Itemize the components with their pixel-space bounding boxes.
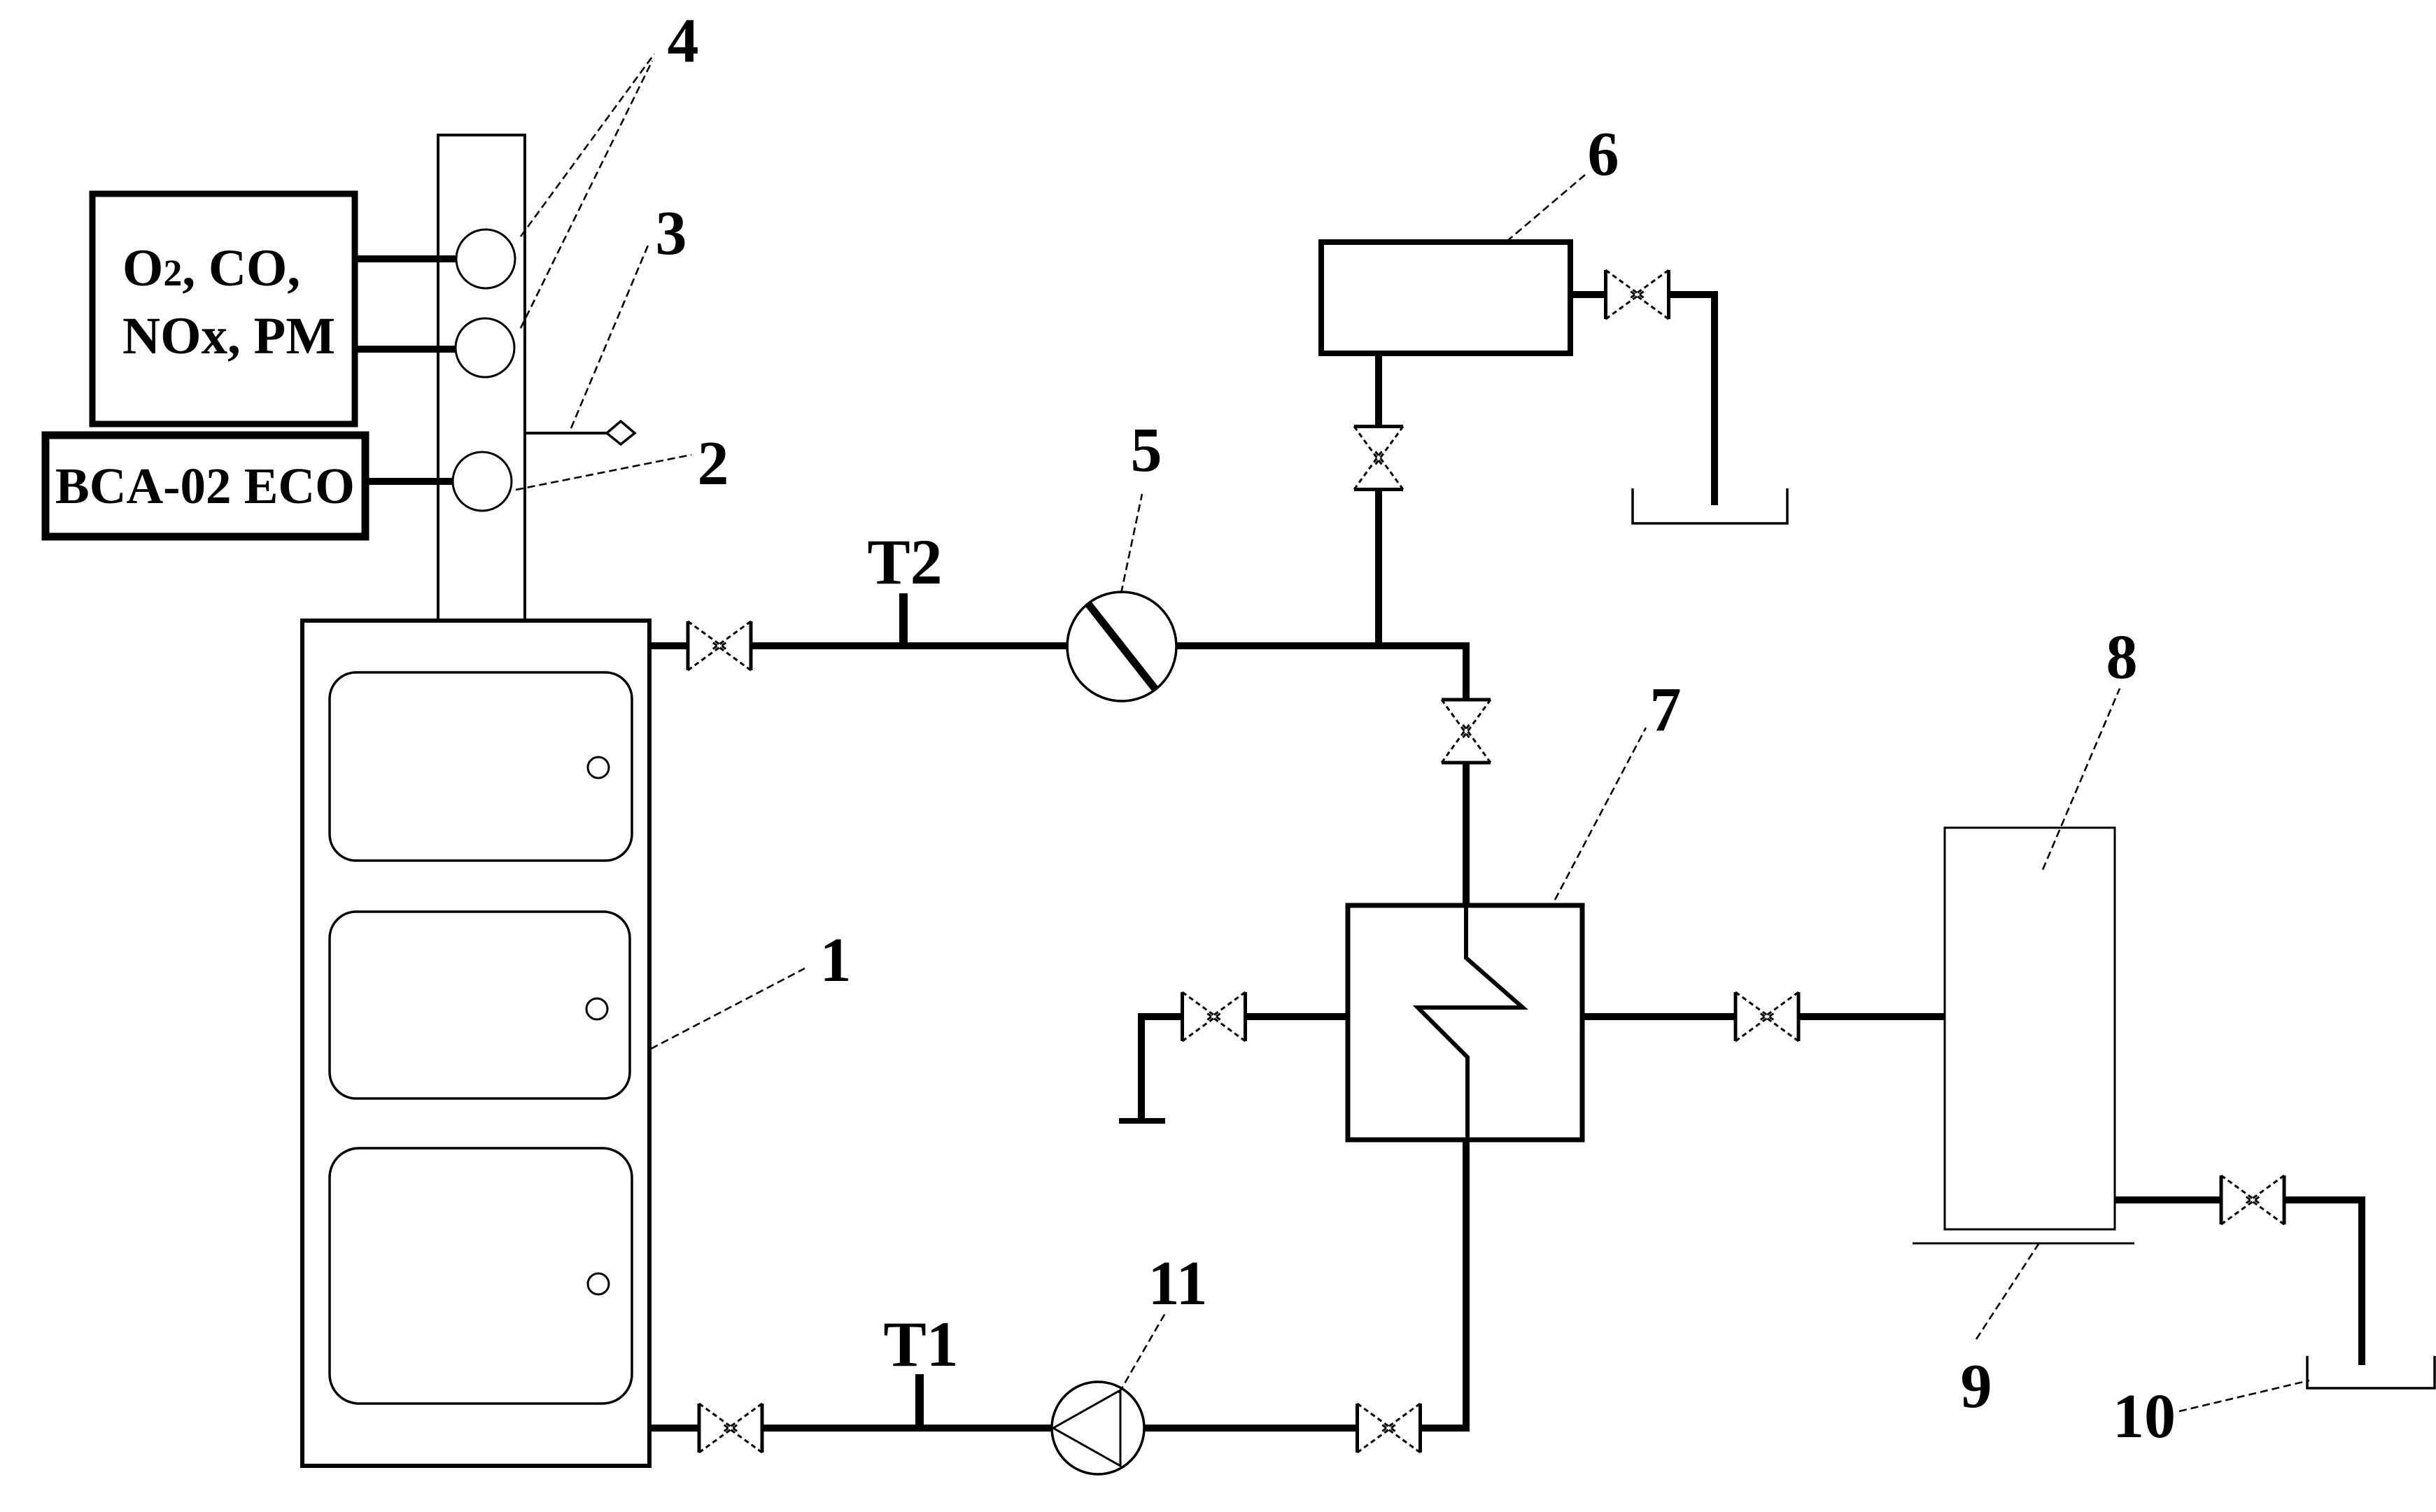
svg-text:6: 6	[1588, 120, 1619, 189]
wire BCA to port 3	[365, 478, 455, 485]
pipe heat exchanger to tank 8	[1582, 1013, 1947, 1020]
gas analyzer box O2 CO NOx PM	[92, 194, 355, 424]
leader line to label 10	[2179, 1380, 2309, 1411]
leader line to label 8	[2043, 688, 2120, 870]
label 7	[1650, 675, 1682, 744]
valve under device 6	[1354, 427, 1403, 490]
valve left of heat exchanger	[1183, 992, 1246, 1041]
valve top boiler outlet	[688, 621, 751, 670]
label 10	[2113, 1382, 2176, 1451]
wire analyzer to port 2	[355, 346, 458, 353]
leader line to label 7	[1555, 728, 1646, 900]
svg-text:2: 2	[698, 429, 729, 498]
svg-text:10: 10	[2113, 1382, 2176, 1451]
label 3	[656, 199, 687, 268]
svg-text:5: 5	[1131, 416, 1162, 485]
boiler door middle handle	[586, 998, 607, 1019]
svg-text:7: 7	[1650, 675, 1682, 744]
pipe corner down to heat exchanger	[1463, 642, 1470, 905]
T2 temperature sensor	[867, 526, 942, 649]
label 8	[2106, 623, 2138, 692]
valve bottom right	[1358, 1404, 1421, 1453]
leader line to label 11	[1119, 1313, 1165, 1393]
boiler 1 body	[302, 621, 649, 1466]
valve between heat exchanger and tank 8	[1736, 992, 1798, 1041]
svg-text:11: 11	[1148, 1249, 1207, 1318]
svg-text:4: 4	[668, 6, 699, 76]
svg-text:T1: T1	[883, 1308, 958, 1380]
valve tank 8 outlet	[2221, 1175, 2284, 1224]
leader line to label 9	[1976, 1242, 2040, 1339]
pipe device 6 to drain valve	[1570, 291, 1718, 505]
container 10	[2307, 1356, 2435, 1388]
leader line to label 5	[1121, 494, 1142, 593]
pipe tank 8 outlet	[2115, 1196, 2365, 1365]
wire junction riser to device 6	[1375, 353, 1382, 649]
T1 temperature sensor	[883, 1308, 958, 1432]
flow meter 5	[1067, 592, 1176, 701]
boiler door middle	[330, 912, 630, 1098]
label 6	[1588, 120, 1619, 189]
base line 9	[1913, 1243, 2134, 1245]
leader line to label 3	[571, 242, 649, 428]
sampling port 4a	[456, 229, 515, 288]
valve above heat exchanger	[1442, 700, 1491, 763]
chimney flue	[437, 135, 526, 621]
svg-text:8: 8	[2106, 623, 2138, 692]
valve bottom left	[699, 1404, 762, 1453]
label 9	[1961, 1352, 1992, 1421]
probe 3	[525, 421, 635, 444]
svg-text:O2, CO,: O2, CO,	[122, 239, 300, 297]
boiler door bottom handle	[588, 1273, 609, 1294]
leader line to label 1	[651, 968, 805, 1049]
leader line to label 2	[516, 455, 691, 490]
heat exchanger 7	[1348, 905, 1582, 1140]
tank 8	[1945, 828, 2115, 1229]
boiler door bottom	[330, 1148, 632, 1404]
label 4	[668, 6, 699, 76]
boiler door top	[330, 672, 632, 861]
analyzer box BCA-02 ECO	[45, 435, 365, 537]
svg-text:9: 9	[1961, 1352, 1992, 1421]
pipe flow meter to corner	[1176, 642, 1470, 649]
drain pipe left of heat exchanger	[1119, 1013, 1348, 1121]
pump 11	[1052, 1382, 1144, 1474]
pipe boiler top outlet	[649, 642, 1067, 649]
leader line to label 4 lower	[521, 61, 652, 328]
sampling port 2	[453, 452, 512, 511]
svg-text:NOx, PM: NOx, PM	[122, 307, 335, 365]
sampling port 4b	[456, 318, 514, 377]
svg-text:3: 3	[656, 199, 687, 268]
device 6 box	[1321, 242, 1570, 353]
label 2	[698, 429, 729, 498]
svg-text:T2: T2	[867, 526, 942, 598]
label 11	[1148, 1249, 1207, 1318]
pipe boiler bottom return	[649, 1140, 1470, 1432]
wire analyzer to port 1	[355, 255, 458, 262]
condensate container top right	[1633, 488, 1787, 523]
boiler door top handle	[588, 757, 609, 778]
label 5	[1131, 416, 1162, 485]
valve right of device 6	[1606, 270, 1669, 319]
leader line to label 6	[1507, 174, 1586, 241]
svg-text:BCA-02 ECO: BCA-02 ECO	[55, 458, 355, 514]
leader line to label 4 upper	[521, 54, 654, 236]
label 1	[820, 926, 852, 995]
svg-text:1: 1	[820, 926, 852, 995]
